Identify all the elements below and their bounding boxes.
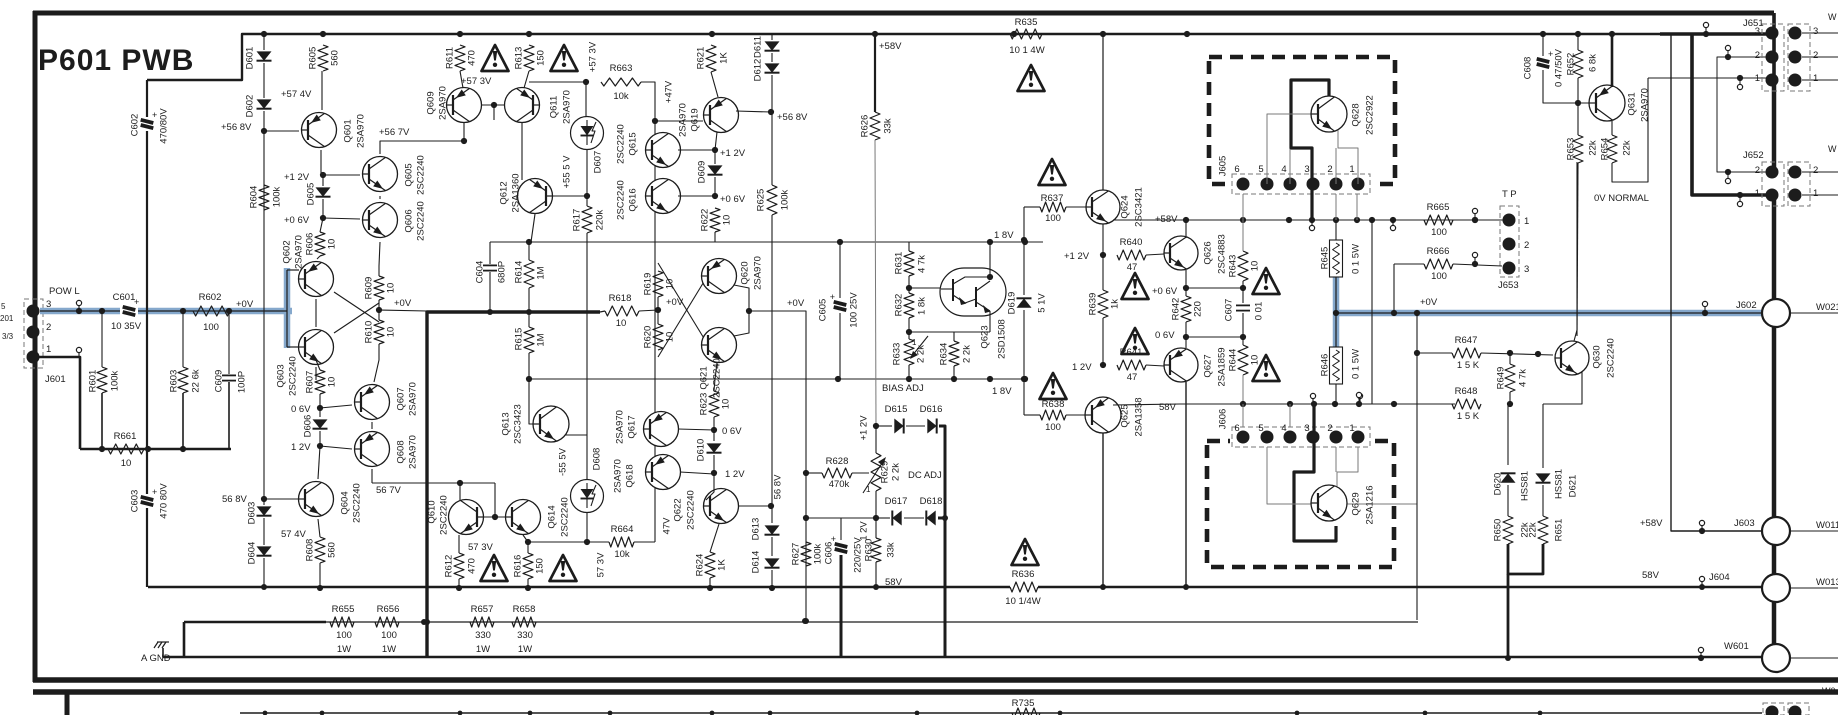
svg-text:2: 2 — [1755, 50, 1760, 61]
resistor R624 — [710, 524, 719, 552]
resistor R652 — [1573, 50, 1583, 78]
transistor Q607 — [355, 385, 390, 420]
resistor R651 — [1538, 516, 1548, 544]
svg-text:1 5 K: 1 5 K — [1457, 360, 1480, 371]
wire Q619 collector — [715, 132, 717, 150]
svg-text:Q608: Q608 — [395, 440, 406, 463]
svg-text:BIAS ADJ: BIAS ADJ — [882, 383, 924, 394]
svg-text:560: 560 — [329, 50, 340, 66]
svg-text:1: 1 — [912, 338, 917, 347]
wire Q629 base — [1267, 447, 1313, 504]
svg-text:0 6V: 0 6V — [291, 404, 311, 415]
svg-text:+56 7V: +56 7V — [379, 127, 410, 138]
frame bottom border — [33, 677, 1838, 683]
resistor R611 — [455, 45, 465, 71]
resistor R625 — [771, 112, 773, 185]
svg-text:0 1 5W: 0 1 5W — [1350, 244, 1361, 274]
wire R666 column — [1393, 264, 1395, 313]
wire Q617 out — [678, 429, 714, 430]
svg-text:2SA1360: 2SA1360 — [510, 173, 521, 212]
resistor R649 — [1505, 364, 1515, 392]
svg-text:R636: R636 — [1012, 569, 1035, 580]
resistor R657 — [470, 617, 494, 627]
svg-text:2SC2240: 2SC2240 — [1605, 338, 1616, 378]
svg-text:R624: R624 — [694, 554, 705, 577]
svg-text:R665: R665 — [1427, 202, 1450, 213]
test pads +58V wire — [1309, 225, 1314, 230]
X1 diagonal — [334, 303, 379, 333]
wire Q602 base stub — [287, 269, 299, 271]
svg-text:R654: R654 — [1599, 138, 1610, 161]
wire Q622 base — [706, 473, 714, 500]
wire Q603 base stub — [287, 346, 299, 348]
svg-text:C603: C603 — [129, 490, 140, 513]
svg-text:R646: R646 — [1319, 354, 1330, 377]
svg-text:R631: R631 — [893, 252, 904, 275]
svg-text:R607: R607 — [304, 371, 315, 394]
svg-text:R642: R642 — [1170, 298, 1181, 321]
potentiometer R629 — [871, 453, 881, 491]
wire Q605 Q606 link — [379, 196, 381, 199]
wire Q626 emitter R642 chain — [1185, 270, 1187, 288]
svg-text:+57 4V: +57 4V — [281, 89, 312, 100]
resistor R601 — [97, 367, 107, 393]
capacitor C601 — [120, 304, 138, 318]
wire R650 bottom thick — [1508, 544, 1543, 574]
svg-text:220: 220 — [1192, 301, 1203, 317]
svg-text:+58V: +58V — [1640, 518, 1663, 529]
resistor R644 — [1238, 345, 1248, 375]
svg-text:2 2k: 2 2k — [961, 345, 972, 363]
node 0 6V — [711, 427, 717, 433]
wire J603 W011 circle — [1762, 517, 1790, 545]
svg-text:0 1 5W: 0 1 5W — [1350, 349, 1361, 379]
svg-text:2: 2 — [46, 322, 51, 333]
node +0V X1 — [376, 307, 382, 313]
svg-text:+0 6V: +0 6V — [1152, 286, 1178, 297]
svg-text:2SC2240: 2SC2240 — [351, 483, 362, 523]
svg-text:Q611: Q611 — [548, 96, 559, 119]
svg-text:+1 2V: +1 2V — [1064, 251, 1090, 262]
svg-text:R608: R608 — [304, 539, 315, 562]
svg-text:C602: C602 — [129, 114, 140, 137]
resistor R643 — [1238, 251, 1248, 281]
junction dots on input wire — [99, 308, 105, 314]
svg-text:10: 10 — [121, 458, 132, 469]
svg-text:R604: R604 — [248, 186, 259, 209]
warning symbol — [1040, 373, 1067, 399]
svg-text:R643: R643 — [1227, 255, 1238, 278]
blue signal wire input 0V — [40, 308, 292, 315]
wire D607 to R617 — [586, 149, 588, 206]
svg-text:D609: D609 — [696, 161, 707, 184]
warning symbol — [1122, 273, 1149, 299]
svg-text:C607: C607 — [1223, 299, 1234, 322]
resistor R616 — [523, 535, 528, 542]
wire Q604 base — [264, 498, 299, 500]
transistor Q605 — [363, 157, 398, 192]
blue 0V wire to J602 — [1336, 310, 1764, 317]
wire J651 pin2 link — [1717, 57, 1770, 172]
resistor R646 — [1330, 347, 1343, 384]
svg-text:2: 2 — [1327, 164, 1332, 175]
svg-text:100: 100 — [1431, 227, 1447, 238]
wire 58V to J606 and R648 — [1180, 403, 1455, 405]
svg-text:R630: R630 — [863, 539, 874, 562]
svg-text:2SA1859: 2SA1859 — [1216, 347, 1227, 386]
wire 1 2V row — [806, 517, 876, 519]
test pad 58V wire — [1356, 392, 1361, 397]
wire output node black — [1335, 277, 1337, 347]
svg-text:100: 100 — [203, 322, 219, 333]
svg-text:Q630: Q630 — [1591, 345, 1602, 368]
wire Q622 collector right — [738, 505, 771, 507]
svg-text:+1 2V: +1 2V — [720, 148, 746, 159]
resistor R627 — [805, 518, 807, 542]
resistor R664 — [609, 537, 634, 547]
svg-text:3: 3 — [1755, 26, 1760, 37]
warning symbol — [482, 45, 509, 71]
wire Q628 emitter — [1338, 129, 1358, 184]
svg-text:330: 330 — [475, 630, 491, 641]
zener diode D619 — [1023, 207, 1025, 295]
svg-text:33k: 33k — [882, 118, 893, 134]
svg-text:10 1 4W: 10 1 4W — [1009, 45, 1044, 56]
svg-text:D608: D608 — [591, 448, 602, 471]
svg-text:3: 3 — [1813, 26, 1818, 37]
diode D612 — [765, 63, 780, 72]
wire 56 7V to output drivers — [372, 482, 495, 484]
node 0 6V — [317, 405, 323, 411]
test pad J604 — [1699, 576, 1704, 581]
svg-text:R655: R655 — [332, 604, 355, 615]
wire Q625 collector — [1102, 433, 1104, 587]
svg-text:2SA970: 2SA970 — [293, 235, 304, 269]
svg-text:330: 330 — [517, 630, 533, 641]
wire pin4 stub — [1289, 149, 1291, 184]
svg-text:100: 100 — [1045, 213, 1061, 224]
svg-text:Q606: Q606 — [403, 209, 414, 232]
svg-text:2SA1358: 2SA1358 — [1133, 397, 1144, 436]
svg-text:57 3V: 57 3V — [595, 552, 606, 577]
svg-text:W021: W021 — [1816, 302, 1838, 313]
wire R655 row — [184, 621, 326, 624]
svg-text:R621: R621 — [695, 47, 706, 70]
transistor Q623 dual 2SD1508 — [940, 268, 1006, 316]
wire Q629 emitter — [1337, 447, 1358, 489]
resistor R602 — [193, 306, 230, 316]
svg-text:1 2V: 1 2V — [291, 442, 311, 453]
svg-text:R610: R610 — [363, 321, 374, 344]
svg-text:2 2k: 2 2k — [890, 463, 901, 481]
resistor R606 — [315, 232, 325, 256]
svg-text:2 2k: 2 2k — [915, 345, 926, 363]
warning symbol — [481, 555, 508, 581]
svg-text:220k: 220k — [594, 209, 605, 230]
svg-text:Q625: Q625 — [1119, 404, 1130, 427]
svg-text:1K: 1K — [716, 559, 727, 571]
svg-text:D606: D606 — [302, 415, 313, 438]
svg-text:47: 47 — [1127, 372, 1138, 383]
resistor R656 — [375, 617, 399, 627]
diode D614 — [765, 558, 780, 567]
connector next sheet right (partial) — [1763, 703, 1784, 715]
wire rail to Q624 — [1102, 34, 1104, 190]
transistor Q610 — [449, 500, 484, 535]
wire Q613 base — [529, 379, 533, 424]
wire R626 to +1 2V node — [875, 140, 876, 426]
diode D604 — [257, 546, 272, 555]
warning symbol — [1018, 65, 1045, 91]
wire R606 to Q602 — [317, 256, 320, 259]
resistor R630 — [871, 538, 881, 562]
resistor R647 — [1417, 352, 1452, 354]
test pad pin1 — [76, 347, 81, 352]
svg-text:J651: J651 — [1743, 18, 1764, 29]
svg-text:1: 1 — [1349, 423, 1354, 434]
svg-text:+58V: +58V — [879, 41, 902, 52]
svg-text:Q624: Q624 — [1119, 195, 1130, 218]
resistor R642 — [1181, 296, 1191, 322]
wire Q607 base — [320, 405, 352, 408]
transistor Q603 — [299, 330, 334, 365]
svg-text:R640: R640 — [1120, 237, 1143, 248]
svg-text:R623: R623 — [698, 393, 709, 416]
wire 0V to DC ADJ column — [749, 311, 806, 621]
svg-text:R612: R612 — [443, 555, 454, 578]
svg-text:R644: R644 — [1227, 349, 1238, 372]
svg-text:1: 1 — [1349, 164, 1354, 175]
photo diode D608 — [571, 480, 604, 513]
diode D618 — [926, 511, 935, 526]
wire Q606 base — [323, 218, 360, 219]
svg-text:1 2V: 1 2V — [725, 469, 745, 480]
svg-text:470 80V: 470 80V — [158, 483, 169, 519]
svg-text:33k: 33k — [885, 542, 896, 558]
capacitor C608 — [1542, 34, 1544, 58]
svg-text:1: 1 — [46, 344, 51, 355]
node +1 2V — [712, 147, 718, 153]
wire D621 column — [1542, 404, 1544, 468]
svg-text:58V: 58V — [1642, 570, 1660, 581]
svg-text:Q618: Q618 — [624, 464, 635, 487]
warning symbol — [1039, 159, 1066, 185]
svg-text:10: 10 — [721, 215, 732, 226]
resistor R607 — [315, 370, 325, 394]
resistor R645 — [1335, 220, 1337, 240]
svg-text:6 8k: 6 8k — [1587, 54, 1598, 72]
module box J605 — [1209, 57, 1395, 184]
resistor R639 — [1098, 290, 1108, 318]
wire J601 pin1 — [33, 357, 80, 449]
svg-text:4: 4 — [1281, 423, 1286, 434]
svg-text:W0: W0 — [1822, 686, 1836, 696]
svg-text:2SA970: 2SA970 — [752, 256, 763, 290]
second sheet top border — [33, 689, 1838, 695]
svg-text:100: 100 — [1045, 422, 1061, 433]
svg-text:W013: W013 — [1816, 577, 1838, 588]
wire X1 to bus — [379, 310, 427, 311]
diode D609 — [708, 165, 723, 174]
svg-text:R632: R632 — [893, 294, 904, 317]
svg-text:D613: D613 — [750, 518, 761, 541]
svg-text:J652: J652 — [1743, 150, 1764, 161]
resistor R604 — [259, 185, 269, 210]
wire Q613 collector to D608 — [565, 434, 587, 436]
svg-text:2SC2240: 2SC2240 — [415, 201, 426, 241]
wire pin6 down — [1242, 194, 1244, 220]
svg-text:5: 5 — [1258, 164, 1263, 175]
svg-text:22 6k: 22 6k — [190, 369, 201, 392]
svg-text:10: 10 — [385, 283, 396, 294]
svg-text:2SA970: 2SA970 — [355, 114, 366, 148]
resistor R614 — [524, 260, 534, 288]
svg-text:47: 47 — [1127, 262, 1138, 273]
transistor Q630 — [1555, 341, 1589, 375]
svg-text:58V: 58V — [885, 577, 903, 588]
svg-text:4: 4 — [1281, 164, 1286, 175]
transistor Q614 — [506, 500, 541, 535]
svg-text:10: 10 — [720, 399, 731, 410]
connector J606 — [1232, 427, 1370, 447]
svg-text:A GND: A GND — [141, 653, 171, 664]
svg-text:R602: R602 — [199, 292, 222, 303]
svg-text:D621: D621 — [1567, 475, 1578, 498]
wire Q624 to Q625 — [1102, 365, 1104, 398]
frame top border thick right segment — [1658, 11, 1774, 16]
svg-text:R601: R601 — [87, 370, 98, 393]
wire R610 to Q607 — [374, 344, 379, 382]
wire R601 bottom — [101, 393, 103, 449]
svg-text:1W: 1W — [518, 644, 532, 655]
warning symbol — [1012, 539, 1039, 565]
svg-text:C608: C608 — [1522, 57, 1533, 80]
svg-text:1 2V: 1 2V — [1072, 362, 1092, 373]
warning symbol — [551, 45, 578, 71]
svg-text:T P: T P — [1502, 189, 1517, 200]
svg-text:560: 560 — [326, 542, 337, 558]
wire Q615 out — [678, 149, 715, 151]
svg-text:5: 5 — [1, 302, 6, 311]
svg-text:470k: 470k — [829, 479, 850, 490]
transistor Q608 — [355, 432, 390, 467]
svg-text:100k: 100k — [779, 189, 790, 210]
svg-text:R611: R611 — [444, 47, 455, 69]
potentiometer R633 — [904, 339, 914, 365]
svg-text:10: 10 — [1249, 261, 1260, 272]
svg-text:R619: R619 — [642, 273, 653, 296]
svg-text:R615: R615 — [513, 328, 524, 351]
resistor R621 — [706, 45, 716, 72]
svg-text:HSS81: HSS81 — [1553, 469, 1564, 499]
resistor R650 — [1503, 516, 1513, 544]
wire +58V to box — [1180, 219, 1508, 221]
wire Q610 Q614 bases — [484, 516, 506, 518]
wire R625 down 56 8V — [771, 215, 773, 506]
svg-text:D617: D617 — [885, 496, 908, 507]
svg-text:22k: 22k — [1587, 140, 1598, 156]
svg-text:0 6V: 0 6V — [1155, 330, 1175, 341]
transistor Q611 — [505, 88, 540, 123]
svg-text:Q612: Q612 — [498, 181, 509, 204]
node Q623 base — [906, 285, 912, 291]
resistor R628 — [806, 472, 822, 474]
svg-text:150: 150 — [535, 50, 546, 66]
svg-text:D603: D603 — [246, 502, 257, 525]
svg-text:R620: R620 — [642, 326, 653, 349]
resistor R640 — [1117, 250, 1146, 260]
svg-text:1W: 1W — [382, 644, 396, 655]
svg-text:D611: D611 — [752, 36, 763, 58]
svg-text:1W: 1W — [337, 644, 351, 655]
svg-text:R645: R645 — [1319, 247, 1330, 270]
resistor R617 — [582, 206, 592, 233]
transistor Q619 — [704, 98, 739, 133]
wire Q616 out — [678, 195, 715, 197]
capacitor C605 column — [839, 242, 841, 300]
svg-text:Q622: Q622 — [672, 498, 683, 521]
module box J606 — [1207, 441, 1394, 567]
svg-text:R641: R641 — [1120, 347, 1143, 358]
thick 0V bus — [427, 312, 600, 657]
svg-text:D620: D620 — [1492, 473, 1503, 496]
diode D615 — [894, 419, 903, 434]
svg-text:2SA970: 2SA970 — [407, 435, 418, 469]
svg-text:+: + — [152, 487, 157, 497]
test pads 58V wire — [1310, 393, 1315, 398]
svg-text:57 3V: 57 3V — [468, 542, 493, 553]
svg-text:470/80V: 470/80V — [158, 108, 169, 144]
svg-text:1M: 1M — [535, 266, 546, 279]
svg-text:Q627: Q627 — [1202, 354, 1213, 377]
node R633 top — [906, 329, 912, 335]
transistor Q613 — [533, 406, 569, 442]
svg-text:Q623: Q623 — [979, 325, 990, 348]
wire Q628 base — [1267, 114, 1313, 184]
wire Q625 emitter to 58V wire — [1113, 404, 1180, 405]
wire R663 to +47V column — [641, 82, 655, 134]
resistor R608 — [318, 519, 320, 537]
wire R664 row — [528, 541, 609, 543]
svg-text:10k: 10k — [613, 91, 629, 102]
svg-text:+57 3V: +57 3V — [461, 76, 492, 87]
svg-text:Q614: Q614 — [546, 505, 557, 528]
resistor R610 — [374, 320, 384, 344]
svg-text:D619: D619 — [1006, 292, 1017, 315]
svg-text:5 1V: 5 1V — [1036, 293, 1047, 313]
svg-text:J601: J601 — [45, 374, 66, 385]
wire R661 ground row — [80, 448, 231, 451]
svg-text:R735: R735 — [1012, 698, 1035, 709]
svg-text:R664: R664 — [611, 524, 634, 535]
svg-text:+: + — [830, 292, 835, 302]
svg-text:2SC2240: 2SC2240 — [615, 180, 626, 220]
svg-text:10: 10 — [326, 239, 337, 250]
wire +58V rail drop to J603 — [1671, 34, 1764, 531]
wire Q602 collector chain — [315, 299, 317, 327]
resistor R654 — [1607, 135, 1617, 163]
node +1 2V — [1100, 252, 1106, 258]
svg-text:J602: J602 — [1736, 300, 1757, 311]
svg-text:+: + — [152, 110, 157, 120]
svg-text:C601: C601 — [113, 292, 136, 303]
svg-text:R661: R661 — [114, 431, 137, 442]
resistor R619 — [653, 271, 663, 297]
node 1 2V — [317, 443, 323, 449]
wire +47V column Q615 Q616 Q617 Q618 — [654, 134, 656, 542]
svg-text:Q609: Q609 — [425, 91, 436, 114]
wire rail to J651 pin3 — [1660, 32, 1770, 36]
